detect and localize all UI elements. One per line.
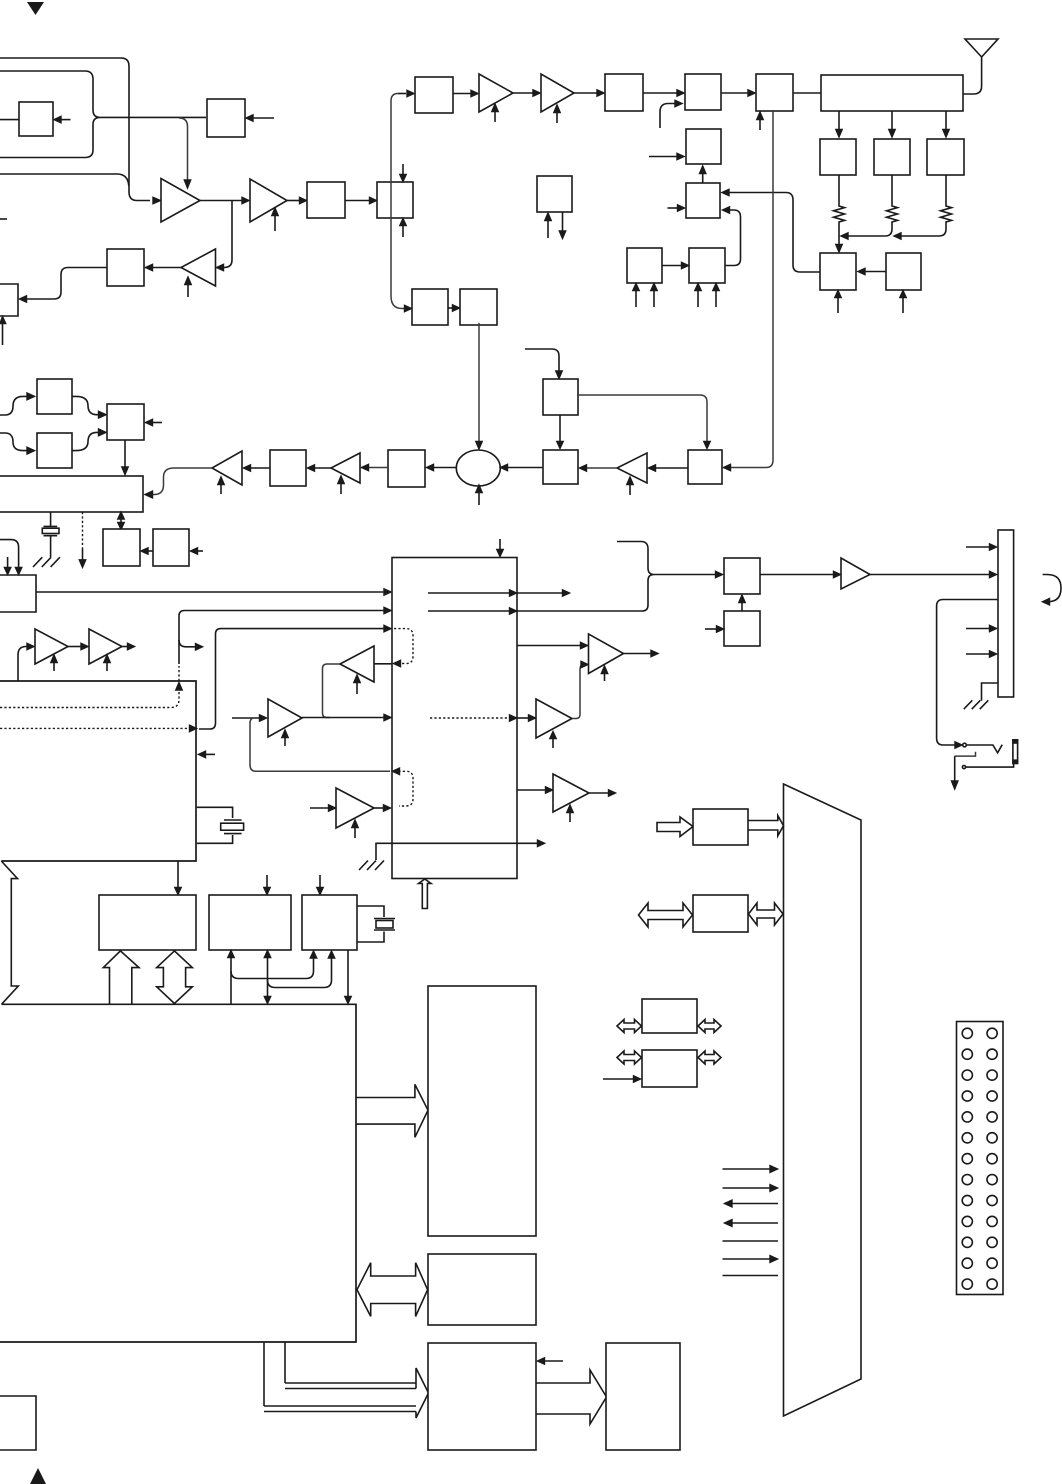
wire PA to SW xyxy=(643,92,678,94)
arrow stub into B1 right xyxy=(58,119,71,121)
crystal X3 xyxy=(374,919,395,931)
wire bb1 to T8 xyxy=(760,574,834,576)
dashed test arrow xyxy=(82,512,84,549)
wire Ta to Tb xyxy=(513,92,533,94)
box B xyxy=(209,895,291,950)
bias arrow T2 xyxy=(274,215,276,231)
wire dsp to T14 xyxy=(517,645,581,647)
resistor R1 xyxy=(834,175,845,245)
stub left xyxy=(0,218,7,220)
wire T1 to T2 xyxy=(200,200,242,202)
dashed dsp line3 xyxy=(430,717,509,719)
hollow dbl arrow boxA xyxy=(157,951,193,1004)
jack plug body xyxy=(1013,740,1018,764)
amp T14 xyxy=(589,634,624,674)
box att2 xyxy=(874,139,910,175)
arrow ctrl2 to ctrl1 xyxy=(702,173,704,183)
hollow arrow rf to bus xyxy=(748,816,784,836)
hollow up arrow boxA xyxy=(103,951,139,1004)
wire Tb to PA xyxy=(574,92,597,94)
box B4 xyxy=(377,182,413,218)
bias T10 xyxy=(106,662,108,671)
antenna xyxy=(965,39,998,57)
wire apc1 to apc2 xyxy=(662,265,682,267)
ctrl arrow boxA xyxy=(177,861,179,888)
bias det xyxy=(837,297,839,313)
wire IF2 to mixer xyxy=(478,323,480,441)
wire to T15 xyxy=(517,717,530,719)
dashed loop1 xyxy=(394,629,413,664)
bias T4 xyxy=(220,484,222,494)
ctrl arrow B4 top xyxy=(402,164,404,175)
bias PLL down xyxy=(562,212,564,231)
trapezoid bus xyxy=(784,784,862,1416)
dbl arrow io1 left xyxy=(617,1020,642,1033)
crystal X1 lead xyxy=(50,512,52,526)
wire dsp to T16 xyxy=(517,789,546,791)
jack down arrow xyxy=(954,756,956,781)
dashed ctrl 1 xyxy=(0,666,179,708)
amp T11 xyxy=(268,699,302,737)
stub conn pin1 xyxy=(966,546,990,548)
wire box to edge module xyxy=(26,268,107,300)
jack switch bar xyxy=(955,752,976,756)
box ctrl1 xyxy=(686,129,721,164)
bias arrow Tb xyxy=(556,112,558,123)
tall sdram box xyxy=(428,986,536,1236)
amp T16 xyxy=(553,774,589,812)
box LPF wide xyxy=(821,75,963,111)
arrow into box IF1 xyxy=(405,305,412,311)
amp T1 xyxy=(161,179,200,223)
dsp out line2 inner xyxy=(428,610,510,612)
box bb2 xyxy=(724,611,760,646)
wire ifamp to T4 xyxy=(250,467,270,469)
box T3 driver xyxy=(107,249,144,286)
wire branch down to T1 xyxy=(179,118,188,180)
hook symbol xyxy=(1043,575,1061,602)
arrow LPF to att3 xyxy=(945,111,947,130)
wire dsp to T12 xyxy=(374,663,393,665)
bus line 4 xyxy=(732,1222,778,1224)
arrow LPF to att2 xyxy=(891,111,893,130)
box A xyxy=(99,895,196,950)
resistor R3 xyxy=(941,175,952,229)
box io2 xyxy=(642,1050,697,1087)
arrow LPF to att1 xyxy=(838,111,840,130)
wire T2 to B5 xyxy=(287,200,300,202)
wire pll1 to mix xyxy=(72,396,100,414)
amp T5 (left) xyxy=(331,453,360,483)
bias arrow Ta xyxy=(494,111,496,122)
stub into ctrl1 xyxy=(649,156,677,158)
box IF2 xyxy=(460,289,497,325)
box vco xyxy=(543,379,578,415)
box apc1 xyxy=(627,248,662,283)
connector bar xyxy=(998,530,1014,697)
wire in audio b xyxy=(0,540,19,567)
arrow into det xyxy=(836,245,842,253)
crystal X3 leads xyxy=(357,906,384,942)
wire pll2 to mix xyxy=(72,432,100,450)
bias arrow T3 xyxy=(187,284,189,297)
wire clk2 to clk xyxy=(148,550,153,552)
wire det to ctrl2 right xyxy=(729,193,820,273)
curve into vco box xyxy=(525,349,559,371)
wire buf to T6 xyxy=(655,467,688,469)
box ctrl2 xyxy=(686,183,720,218)
hollow arrow codec2 to amp xyxy=(536,1370,607,1424)
hollow arrow cpu to sdram xyxy=(356,1084,428,1137)
wire FLT to LPF xyxy=(793,92,821,94)
wire audio to dsp xyxy=(36,591,384,593)
box audio in xyxy=(0,575,36,612)
big cpu box xyxy=(0,1004,356,1342)
pin header xyxy=(957,1022,1004,1295)
wire in pll1 xyxy=(0,396,27,415)
dashed loop2 xyxy=(394,771,413,806)
stub into codec2 right xyxy=(544,1360,563,1362)
box pll1 xyxy=(37,379,72,414)
box pll2 xyxy=(37,433,72,468)
wire net A top xyxy=(0,58,150,201)
box buf xyxy=(688,450,722,484)
hollow arrow dsp bottom xyxy=(419,879,431,909)
arrow bb2 to bb1 xyxy=(741,602,743,611)
hollow dbl arrow if right xyxy=(749,903,784,925)
bias T12 xyxy=(356,682,358,694)
hollow fork head xyxy=(416,1368,429,1418)
pin circles col2 xyxy=(987,1028,997,1289)
wire in audio a xyxy=(7,557,9,567)
curved ctrl arrow into ANT SW xyxy=(660,104,675,129)
box att1 xyxy=(820,139,856,175)
amp T9 xyxy=(35,629,68,664)
stub into clk2 xyxy=(197,550,203,552)
dbl arrow io1 right xyxy=(698,1020,721,1033)
amp T8 xyxy=(841,558,870,589)
wire bpf to T5 xyxy=(368,467,388,469)
wire vco down xyxy=(559,415,561,441)
wire T5 to ifamp xyxy=(314,467,331,469)
box apc2 xyxy=(689,248,725,283)
ctrl arrow dsp top xyxy=(499,539,501,550)
resistor R2 xyxy=(887,175,898,229)
crystal X2 leads xyxy=(197,807,233,843)
bias T14 xyxy=(604,673,606,681)
wire T13 to dsp xyxy=(374,807,384,809)
stub into codec right xyxy=(205,753,215,755)
wire stub into B2 right xyxy=(250,117,274,119)
wire codec pin loop xyxy=(199,629,384,729)
amp T4 (left) xyxy=(212,451,242,485)
box det2 xyxy=(886,253,921,290)
wire R3 join R2 xyxy=(901,229,946,236)
ground X1 xyxy=(33,557,60,567)
wire bracket xyxy=(0,71,100,158)
wire in T11 xyxy=(232,717,260,719)
box IF1 xyxy=(412,289,448,325)
bias mixer xyxy=(478,492,480,505)
conn ground xyxy=(982,683,999,701)
bias T15 xyxy=(552,739,554,748)
wire TX1 to Ta xyxy=(453,93,471,95)
box io1 xyxy=(642,999,697,1033)
box PA xyxy=(605,74,643,111)
amp T15 xyxy=(536,699,572,738)
hollow dbl arrow if left xyxy=(639,903,693,927)
box codec2 xyxy=(428,1343,536,1450)
wire branch down to T3 xyxy=(222,201,233,268)
jack lower wire xyxy=(966,764,1014,767)
bias apc1 a xyxy=(635,290,637,307)
bias apc2 a xyxy=(697,290,699,307)
amp Ta xyxy=(479,74,513,112)
arrow into box RF1 xyxy=(398,93,406,95)
box det xyxy=(820,253,856,290)
wire T6 to lo xyxy=(586,467,617,469)
wire apc to ctrl2 right xyxy=(726,210,741,266)
amp T6 (left) xyxy=(617,453,647,483)
bias apc1 b xyxy=(653,290,655,307)
dsp out line1 stub xyxy=(517,592,563,594)
stub conn pin3 xyxy=(966,628,990,630)
box PLL ref xyxy=(537,176,572,212)
tall dsp box xyxy=(392,558,517,879)
wire FLT down to rx mixer box xyxy=(730,111,773,468)
box flash xyxy=(428,1254,536,1325)
wire conn to jack xyxy=(937,600,998,746)
stub conn pin4 xyxy=(966,653,990,655)
ctrl arrow boxB xyxy=(266,875,268,888)
wire T1 feed xyxy=(0,174,129,186)
bias T6 xyxy=(629,484,631,495)
wire to bb1 xyxy=(654,574,716,576)
mixer M1 xyxy=(456,450,500,486)
wire T8 to conn xyxy=(870,574,990,576)
out arrow T14 xyxy=(624,653,652,655)
ctrl arrow boxC xyxy=(319,875,321,888)
bias FLT stub xyxy=(759,119,761,130)
bias arrow edge module xyxy=(2,323,4,345)
wire R2 join R1 xyxy=(848,229,892,236)
box if module xyxy=(693,895,748,932)
break flag codec xyxy=(1,861,18,1004)
wire boxC to bus xyxy=(347,951,349,997)
dbl arrow io2 left xyxy=(617,1051,642,1064)
ground wire dsp xyxy=(376,843,544,860)
out arrow T16 xyxy=(589,792,609,794)
wire T3 to box xyxy=(152,267,181,269)
wire T11 branch to dsp pin xyxy=(250,719,390,772)
wire vco to buf box xyxy=(578,395,707,441)
box FLT xyxy=(756,74,793,111)
crystal X1 xyxy=(44,526,58,535)
bias det2 xyxy=(902,297,904,313)
bus line 3 xyxy=(732,1203,778,1205)
wire bus to boxB b xyxy=(267,958,269,996)
bus line 2 xyxy=(723,1187,771,1189)
out arrow T10 xyxy=(122,646,128,648)
bias T11 xyxy=(284,737,286,746)
bar pll ic xyxy=(0,476,143,512)
jack spring xyxy=(966,745,1002,753)
hollow dbl arrow cpu flash xyxy=(357,1263,428,1317)
wire pllmix down xyxy=(124,440,126,467)
stub into ctrl2 left xyxy=(668,207,679,209)
box TX1 xyxy=(415,77,453,113)
wire T11 to dsp xyxy=(302,717,384,719)
box edge bottom xyxy=(0,1396,36,1450)
wire to B2 xyxy=(100,116,206,118)
wire s-curve to boxC a xyxy=(231,958,314,979)
wire in T9 xyxy=(18,647,27,682)
wire mixer to bpf xyxy=(433,467,457,469)
wire s-curve to boxC b xyxy=(268,958,332,988)
wire dsp line vertical xyxy=(179,611,384,665)
bias T13 xyxy=(354,827,356,838)
branch out arrow xyxy=(179,640,196,647)
pin circles col1 xyxy=(962,1028,972,1289)
dsp out line2 wire xyxy=(517,542,654,612)
stub into bb2 xyxy=(705,628,717,630)
stub into pllmix right xyxy=(152,422,162,424)
wire into io2 xyxy=(603,1078,634,1080)
wire into B1 left xyxy=(0,119,19,121)
box pllmix xyxy=(107,404,144,440)
box B2 xyxy=(207,99,245,137)
box audio amp xyxy=(606,1343,680,1450)
wire in T13 xyxy=(310,807,329,809)
jack contact circle b xyxy=(962,766,965,769)
wire cpu fork b xyxy=(263,1342,265,1406)
amp T12 (left) xyxy=(340,646,374,682)
box B1 xyxy=(19,102,53,136)
box ifamp xyxy=(270,450,306,486)
dashed ctrl 2 xyxy=(0,727,188,729)
hollow fork shaft a xyxy=(285,1383,416,1389)
box bb1 xyxy=(724,558,760,594)
wire det2 to det xyxy=(865,271,886,273)
arrow into T1 xyxy=(153,197,161,203)
ground dsp xyxy=(359,861,384,871)
bias T5 xyxy=(340,483,342,494)
bias PLL up xyxy=(547,220,549,238)
bias T16 xyxy=(569,812,571,822)
hollow arrow into rf module xyxy=(657,817,693,837)
bias T9 xyxy=(53,662,55,671)
crystal X2 xyxy=(224,820,242,834)
wire bus to boxB a xyxy=(230,957,232,1004)
amp T3 (left) xyxy=(181,249,216,286)
bus line 7 xyxy=(723,1275,779,1277)
wire T15 to T14 xyxy=(572,665,584,719)
dbl arrow bar to clk xyxy=(120,516,122,526)
box edge module xyxy=(0,284,18,316)
box rf module xyxy=(693,809,748,845)
box clk xyxy=(103,529,140,566)
dbl arrow io2 right xyxy=(698,1051,721,1064)
wire vertical bus x391 xyxy=(391,94,404,309)
box B5 xyxy=(307,182,345,218)
page marker bottom xyxy=(30,1468,46,1484)
bus line 6 xyxy=(723,1258,771,1260)
bias apc2 b xyxy=(715,290,717,307)
wire cpu fork a xyxy=(284,1342,286,1383)
box att3 xyxy=(927,139,964,175)
amp T2 xyxy=(250,179,287,222)
page marker top xyxy=(27,2,44,15)
amp T13 xyxy=(336,788,374,828)
hollow fork shaft b xyxy=(264,1406,416,1412)
dsp out line1 inner xyxy=(428,592,510,594)
wire in pll2 xyxy=(0,433,27,451)
wire lo to mixer xyxy=(507,467,543,469)
wire T12 merge xyxy=(323,664,341,718)
bus line 1 xyxy=(723,1168,771,1170)
bus line 5 xyxy=(723,1240,779,1242)
big codec box xyxy=(0,681,196,861)
wire T4 to bar xyxy=(152,468,212,495)
amp Tb xyxy=(541,74,574,112)
amp T10 xyxy=(89,629,122,664)
box clk2 xyxy=(153,529,189,566)
wire IF1 to IF2 xyxy=(448,307,453,309)
box bpf xyxy=(388,450,425,487)
box ANT SW xyxy=(685,74,721,110)
ctrl arrow B4 bottom xyxy=(402,225,404,237)
jack contact circle a xyxy=(963,743,967,747)
wire B5 to B4 xyxy=(345,200,369,202)
box lo xyxy=(543,450,578,484)
wire T9 to T10 xyxy=(68,646,81,648)
box C xyxy=(302,895,357,950)
wire SW to FLT xyxy=(721,92,748,94)
